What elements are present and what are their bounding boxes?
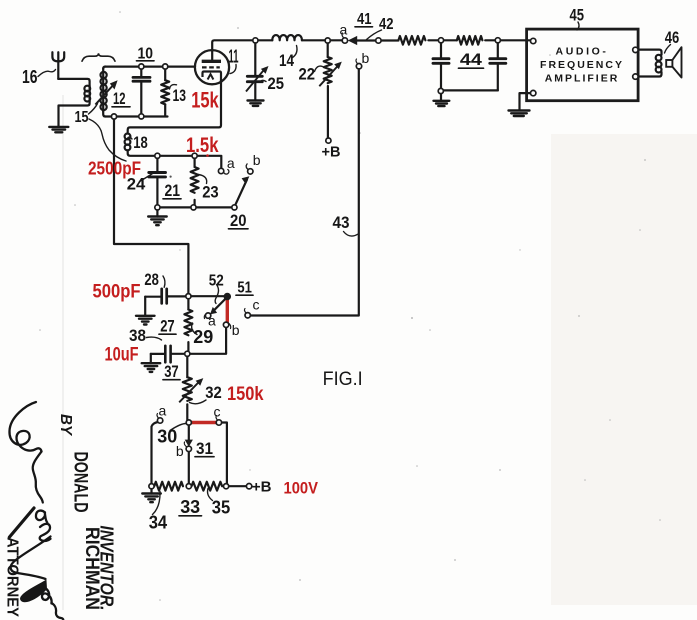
svg-text:27: 27 (160, 317, 175, 336)
svg-text:20: 20 (230, 211, 247, 230)
svg-text:b: b (232, 322, 240, 338)
svg-text:46: 46 (665, 28, 680, 47)
svg-text:25: 25 (268, 74, 285, 93)
svg-text:35: 35 (212, 498, 231, 518)
svg-text:AMPLIFIER: AMPLIFIER (545, 72, 620, 84)
svg-text:500pF: 500pF (93, 281, 141, 303)
svg-text:51: 51 (237, 280, 252, 297)
svg-text:10uF: 10uF (105, 344, 139, 366)
svg-text:c: c (253, 297, 260, 313)
svg-text:+B: +B (322, 145, 341, 161)
svg-text:14: 14 (279, 51, 294, 70)
svg-text:ATTORNEY: ATTORNEY (4, 537, 21, 617)
svg-text:DONALD: DONALD (70, 452, 91, 513)
svg-text:1.5k: 1.5k (186, 134, 219, 157)
svg-text:100V: 100V (284, 479, 319, 498)
svg-text:45: 45 (570, 6, 585, 25)
svg-text:29: 29 (193, 327, 213, 347)
svg-text:b: b (176, 443, 184, 459)
svg-text:11: 11 (229, 47, 239, 67)
svg-text:43: 43 (333, 213, 350, 232)
svg-text:b: b (362, 50, 370, 66)
svg-text:a: a (227, 155, 235, 171)
svg-text:a: a (159, 403, 167, 419)
svg-text:41: 41 (357, 11, 372, 28)
svg-text:c: c (214, 404, 221, 420)
svg-text:30: 30 (157, 427, 177, 447)
svg-text:150k: 150k (227, 383, 264, 405)
svg-text:44: 44 (460, 50, 483, 69)
svg-text:AUDIO-: AUDIO- (556, 46, 609, 58)
svg-text:52: 52 (209, 273, 224, 290)
svg-text:32: 32 (205, 383, 222, 402)
svg-text:42: 42 (379, 16, 394, 33)
svg-text:FIG.I: FIG.I (323, 368, 363, 390)
svg-text:23: 23 (202, 183, 219, 202)
svg-text:38: 38 (129, 326, 146, 345)
svg-text:13: 13 (173, 86, 187, 105)
svg-text:33: 33 (180, 497, 200, 517)
svg-text:12: 12 (113, 89, 126, 108)
svg-text:+B: +B (252, 479, 272, 496)
svg-text:b: b (253, 152, 261, 168)
svg-text:FREQUENCY: FREQUENCY (540, 59, 624, 71)
svg-text:22: 22 (299, 65, 316, 84)
svg-text:16: 16 (22, 67, 38, 87)
svg-text:24: 24 (127, 175, 146, 194)
svg-text:18: 18 (133, 133, 148, 152)
svg-text:28: 28 (144, 270, 159, 289)
svg-text:15: 15 (75, 109, 89, 126)
svg-text:21: 21 (165, 181, 181, 200)
svg-text:BY: BY (57, 414, 74, 436)
svg-text:37: 37 (164, 362, 179, 381)
svg-text:15k: 15k (191, 88, 219, 113)
svg-text:34: 34 (149, 513, 168, 533)
svg-text:31: 31 (196, 439, 213, 458)
svg-text:a: a (340, 22, 348, 38)
svg-text:INVENTOR.: INVENTOR. (97, 526, 117, 611)
svg-text:a: a (208, 313, 216, 329)
